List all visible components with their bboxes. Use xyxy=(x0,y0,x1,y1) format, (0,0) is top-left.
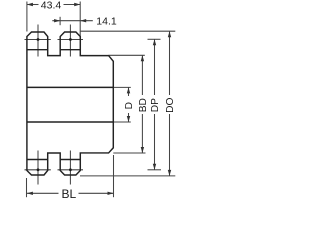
svg-text:DP: DP xyxy=(150,98,161,112)
svg-text:BD: BD xyxy=(138,98,149,112)
svg-text:BL: BL xyxy=(62,187,77,200)
svg-text:D: D xyxy=(124,102,135,109)
svg-text:14.1: 14.1 xyxy=(96,15,117,27)
svg-text:DO: DO xyxy=(165,97,176,112)
svg-text:43.4: 43.4 xyxy=(41,0,62,11)
